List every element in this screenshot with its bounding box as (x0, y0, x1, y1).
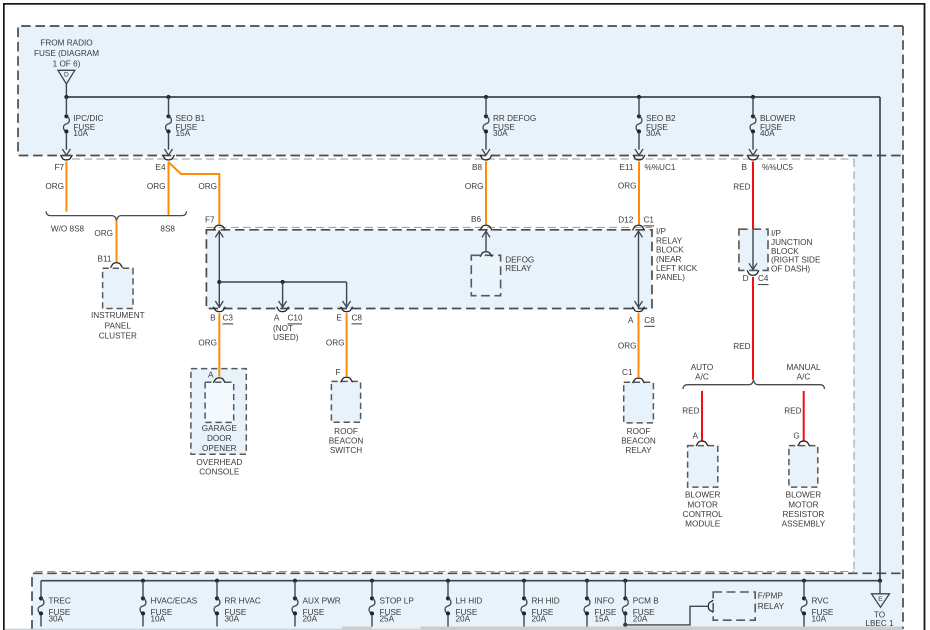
svg-text:BLOCK: BLOCK (656, 246, 684, 255)
svg-text:BLOWER: BLOWER (685, 491, 721, 500)
fuse RR HVAC 30A (214, 581, 261, 627)
svg-text:STOP LP: STOP LP (380, 597, 415, 606)
svg-text:OVERHEAD: OVERHEAD (196, 458, 242, 467)
connector label C10 (288, 314, 303, 324)
svg-text:MOTOR: MOTOR (688, 500, 718, 509)
roof beacon relay box (624, 382, 654, 423)
pin label E11 (620, 163, 634, 172)
svg-text:B11: B11 (98, 254, 112, 263)
node bus tap HVAC/ECAS (141, 579, 145, 583)
svg-text:SEO B1: SEO B1 (176, 114, 206, 123)
svg-text:USED): USED) (273, 333, 299, 342)
svg-text:PANEL): PANEL) (656, 273, 685, 282)
svg-text:SWITCH: SWITCH (330, 446, 362, 455)
node bus tap PCM B (623, 579, 627, 583)
fuse RR DEFOG 30A (482, 97, 536, 155)
svg-text:FROM RADIO: FROM RADIO (40, 39, 92, 48)
defog relay box (471, 255, 500, 295)
fuse RH HID 20A (521, 581, 560, 627)
svg-text:30A: 30A (225, 614, 240, 623)
off-page triangle D (58, 70, 75, 84)
pin label A (C10) (274, 314, 280, 323)
thin dashed line above relay block (206, 226, 652, 228)
wire label ORG (B8) (465, 182, 484, 191)
pin label E4 (155, 163, 165, 172)
instrument panel cluster box (103, 268, 133, 308)
scrollbar strip left (342, 627, 372, 630)
label FROM RADIO FUSE (DIAGRAM 1 OF 6) (34, 39, 99, 69)
svg-text:(NOT: (NOT (273, 324, 293, 333)
svg-text:ORG: ORG (618, 342, 637, 351)
svg-text:RED: RED (784, 406, 801, 415)
svg-text:ORG: ORG (618, 182, 637, 191)
svg-text:I/P: I/P (771, 229, 782, 238)
node bus tap IPC/DIC (64, 95, 68, 99)
svg-text:10A: 10A (812, 614, 827, 623)
svg-text:C10: C10 (288, 314, 303, 323)
svg-text:30A: 30A (49, 614, 64, 623)
svg-text:RESISTOR: RESISTOR (783, 510, 825, 519)
fuse HVAC/ECAS 10A (140, 581, 198, 627)
fuse SEO B2 30A (635, 97, 676, 155)
connector B11 cup (111, 263, 123, 268)
svg-text:CONTROL: CONTROL (683, 510, 723, 519)
svg-text:HVAC/ECAS: HVAC/ECAS (151, 597, 198, 606)
wire label RED (control module) (682, 406, 699, 415)
wire PCM B to F/PMP relay (625, 606, 707, 628)
node relay block junction 1 (217, 280, 221, 284)
connector label C8 (right) (644, 316, 655, 326)
connector D/C4 cup (747, 270, 759, 275)
svg-text:ROOF: ROOF (334, 427, 358, 436)
fuse BLOWER 40A (749, 97, 796, 155)
node bus tap STOP LP (370, 579, 374, 583)
scrollbar strip baseline (5, 629, 903, 630)
svg-text:MANUAL: MANUAL (786, 363, 821, 372)
svg-text:G: G (793, 432, 799, 441)
svg-text:C1: C1 (622, 368, 633, 377)
brace AUTO A/C / MANUAL A/C (683, 380, 825, 389)
wire ORG C3 to garage door opener (218, 313, 220, 377)
roof beacon switch box (331, 381, 360, 422)
svg-text:LBEC 1: LBEC 1 (865, 619, 894, 628)
connector cup F/PMP relay (708, 600, 713, 612)
label I/P RELAY BLOCK (NEAR LEFT KICK PANEL) (656, 227, 698, 282)
svg-text:LH HID: LH HID (456, 597, 483, 606)
svg-text:10A: 10A (73, 129, 88, 138)
svg-text:F7: F7 (54, 163, 64, 172)
inner boundary dashed line below top fuse block (72, 158, 854, 160)
scrollbar strip gap (372, 627, 421, 629)
blower motor resistor assembly box (789, 446, 818, 488)
fuse AUX PWR 20A (292, 581, 341, 627)
svg-text:SEO B2: SEO B2 (646, 114, 676, 123)
svg-text:CONSOLE: CONSOLE (199, 468, 240, 477)
connector B/C3 cup (213, 307, 225, 312)
svg-text:C3: C3 (223, 314, 234, 323)
wire ORG C8-A to roof beacon relay (638, 313, 640, 377)
pin label D (C4) (743, 274, 749, 283)
svg-text:A: A (628, 316, 634, 325)
svg-text:A: A (693, 432, 699, 441)
fuse TREC 30A (38, 581, 71, 627)
svg-text:TREC: TREC (49, 597, 71, 606)
svg-text:F: F (335, 368, 340, 377)
label ROOF BEACON SWITCH (329, 427, 364, 455)
fuse INFO 15A (584, 581, 617, 627)
svg-text:W/O 8S8: W/O 8S8 (51, 224, 85, 233)
wire ORG from F7 (65, 162, 67, 212)
svg-text:B: B (742, 163, 748, 172)
svg-text:30A: 30A (646, 129, 661, 138)
connector E/C8 cup (341, 307, 353, 312)
scrollbar strip right (421, 627, 902, 630)
svg-text:AUTO: AUTO (691, 363, 714, 372)
label I/P JUNCTION BLOCK (RIGHT SIDE OF DASH) (771, 229, 821, 274)
svg-text:8S8: 8S8 (160, 224, 175, 233)
connector cup garage door opener (213, 378, 225, 383)
svg-text:15A: 15A (595, 614, 610, 623)
pin label B6 (471, 215, 481, 224)
connector label C8 (352, 314, 363, 324)
net label %%UC1 (645, 163, 676, 172)
fuse SEO B1 15A (165, 97, 206, 155)
svg-text:CLUSTER: CLUSTER (99, 331, 137, 340)
node bus tap RVC (802, 579, 806, 583)
svg-text:RR DEFOG: RR DEFOG (493, 114, 536, 123)
wire bus to triangle E (879, 581, 881, 594)
blower motor control module box (688, 446, 718, 488)
svg-text:MOTOR: MOTOR (788, 500, 818, 509)
page border right (924, 3, 926, 630)
relay block internal drop C8-E (343, 282, 351, 308)
svg-text:20A: 20A (456, 614, 471, 623)
fuse LH HID 20A (445, 581, 482, 627)
svg-text:IPC/DIC: IPC/DIC (73, 114, 103, 123)
wire ORG brace to B11 (116, 221, 118, 263)
svg-text:(NEAR: (NEAR (656, 255, 682, 264)
wire label RED (B) (733, 183, 750, 192)
node bus tap LH HID (446, 579, 450, 583)
svg-text:OPENER: OPENER (202, 444, 237, 453)
label GARAGE DOOR OPENER (202, 424, 238, 453)
wire RED to blower motor resistor (803, 391, 805, 441)
wire label ORG (F7) (45, 182, 64, 191)
inner boundary dashed line right side (853, 159, 855, 572)
relay block internal line to defog relay (482, 230, 490, 251)
I/P relay block box (206, 230, 652, 309)
svg-text:D12: D12 (618, 216, 633, 225)
svg-text:30A: 30A (493, 129, 508, 138)
node bus tap AUX PWR (293, 579, 297, 583)
connector F7 cup (relay block) (213, 225, 225, 230)
connector cup roof beacon switch (341, 377, 353, 382)
svg-text:BLOCK: BLOCK (771, 247, 799, 256)
power bus right vertical (879, 97, 881, 581)
wire label ORG (E11) (618, 182, 637, 191)
wire RED from B (752, 162, 754, 230)
svg-text:ORG: ORG (45, 182, 64, 191)
svg-text:RED: RED (733, 342, 750, 351)
svg-text:D: D (743, 274, 749, 283)
pin label F7 (54, 163, 64, 172)
label TO LBEC 1 (865, 611, 894, 628)
node relay block junction 2 (281, 280, 285, 284)
pin label A (control module) (693, 432, 699, 441)
connector A/C10 cup (277, 307, 289, 312)
svg-text:BEACON: BEACON (621, 437, 656, 446)
svg-text:RH HID: RH HID (532, 597, 560, 606)
svg-text:BLOWER: BLOWER (786, 491, 822, 500)
svg-text:E: E (336, 314, 342, 323)
connector label C3 (223, 314, 234, 324)
svg-text:GARAGE: GARAGE (202, 424, 238, 433)
connector cup defog relay (480, 252, 492, 257)
pin label B8 (472, 163, 482, 172)
label (NOT USED) (273, 324, 299, 342)
connector B cup (747, 155, 759, 160)
svg-text:RELAY: RELAY (758, 602, 785, 611)
power bus horizontal (66, 96, 880, 98)
svg-text:INSTRUMENT: INSTRUMENT (91, 311, 145, 320)
wire label ORG (C3) (198, 339, 217, 348)
svg-text:PANEL: PANEL (105, 322, 132, 331)
bottom bus horizontal (41, 580, 880, 582)
node bus tap RR HVAC (215, 579, 219, 583)
svg-text:%%UC5: %%UC5 (762, 163, 793, 172)
pin label C1 (roof beacon relay) (622, 368, 633, 377)
svg-text:A/C: A/C (695, 373, 709, 382)
svg-text:RELAY: RELAY (625, 446, 652, 455)
pin label B (742, 163, 748, 172)
connector F7 cup (60, 155, 72, 160)
node bus tap RH HID (522, 579, 526, 583)
net label %%UC5 (762, 163, 793, 172)
pin label A (C8) (628, 316, 634, 325)
svg-text:1 OF 6): 1 OF 6) (53, 60, 81, 69)
fuse PCM B 20A (622, 581, 659, 624)
svg-text:OF DASH): OF DASH) (771, 265, 810, 274)
brace W/O 8S8 / 8S8 (46, 211, 187, 220)
svg-text:D: D (64, 72, 69, 79)
fuse block area fill (top) (18, 26, 903, 156)
svg-text:40A: 40A (760, 129, 775, 138)
bottom fuse block fill (32, 573, 903, 629)
svg-text:DOOR: DOOR (207, 434, 232, 443)
off-page triangle E (872, 594, 890, 607)
bottom fuse block dashed border (32, 573, 903, 629)
label DEFOG RELAY (505, 256, 534, 273)
pin label F (roof beacon switch) (335, 368, 340, 377)
relay block internal drop C10 (279, 282, 287, 308)
label BLOWER MOTOR CONTROL MODULE (683, 491, 723, 529)
connector label C4 (758, 274, 769, 284)
svg-text:B6: B6 (471, 215, 481, 224)
junction block internal line (749, 230, 757, 270)
connector cup blower motor resistor (798, 441, 810, 446)
svg-text:%%UC1: %%UC1 (645, 163, 676, 172)
svg-text:ORG: ORG (198, 182, 217, 191)
svg-text:AUX PWR: AUX PWR (303, 597, 341, 606)
overhead console box (191, 369, 246, 455)
svg-text:B8: B8 (472, 163, 482, 172)
option label W/O 8S8 (51, 224, 85, 233)
svg-text:20A: 20A (532, 614, 547, 623)
svg-text:A/C: A/C (797, 373, 811, 382)
pin label G (resistor) (793, 432, 799, 441)
connector B8 cup (480, 155, 492, 160)
wire label ORG (C8 A) (618, 342, 637, 351)
wire ORG from B8 to B6 (485, 162, 487, 225)
page border top (3, 3, 925, 5)
svg-text:A: A (274, 314, 280, 323)
pin label A (garage door opener) (208, 371, 214, 380)
label OVERHEAD CONSOLE (196, 458, 242, 476)
wire label ORG (E4) (147, 182, 166, 191)
svg-text:C4: C4 (758, 274, 769, 283)
relay block internal horizontal wire (219, 281, 346, 283)
svg-text:LEFT KICK: LEFT KICK (656, 264, 698, 273)
svg-text:RELAY: RELAY (505, 264, 532, 273)
svg-text:RED: RED (733, 183, 750, 192)
svg-text:BEACON: BEACON (329, 436, 364, 445)
option label MANUAL A/C (786, 363, 821, 382)
wire ORG from E11 to D12 (638, 162, 640, 225)
connector E4 cup (163, 155, 175, 160)
label INSTRUMENT PANEL CLUSTER (91, 311, 145, 340)
svg-text:15A: 15A (176, 129, 191, 138)
pin label D12 (618, 216, 633, 225)
label ROOF BEACON RELAY (621, 427, 656, 455)
node bus tap SEO B1 (166, 95, 170, 99)
svg-text:C8: C8 (352, 314, 363, 323)
svg-text:ORG: ORG (198, 339, 217, 348)
wire triangle D to bus (65, 84, 67, 97)
pin label B (C3) (210, 314, 216, 323)
svg-text:MODULE: MODULE (685, 520, 721, 529)
node bus tap SEO B2 (637, 95, 641, 99)
I/P junction block box (739, 229, 768, 270)
svg-text:ORG: ORG (94, 229, 113, 238)
connector B6 cup (relay block) (480, 225, 492, 230)
fuse RVC 10A (801, 581, 834, 627)
svg-text:10A: 10A (151, 614, 166, 623)
svg-text:BLOWER: BLOWER (760, 114, 796, 123)
option label AUTO A/C (691, 363, 714, 382)
svg-text:RVC: RVC (812, 597, 829, 606)
connector D12/C1 cup (relay block) (633, 225, 645, 230)
option label 8S8 (160, 224, 175, 233)
wire ORG branch E4 to relay block F7 (169, 163, 219, 225)
svg-text:I/P: I/P (656, 227, 667, 236)
node bus tap BLOWER (751, 95, 755, 99)
wire RED to blower motor control module (701, 391, 703, 441)
svg-text:F7: F7 (205, 215, 215, 224)
pin label E (C8) (336, 314, 342, 323)
connector cup blower motor control module (696, 441, 708, 446)
svg-text:E4: E4 (155, 163, 165, 172)
svg-text:20A: 20A (303, 614, 318, 623)
pin label B11 (98, 254, 112, 263)
wire label ORG (C8 E) (326, 339, 345, 348)
svg-text:ORG: ORG (326, 339, 345, 348)
svg-text:(RIGHT SIDE: (RIGHT SIDE (771, 256, 821, 265)
wire label RED (C4) (733, 342, 750, 351)
label F/PMP RELAY (758, 592, 785, 611)
svg-text:E: E (878, 596, 883, 603)
node bus tap INFO (585, 579, 589, 583)
wire ORG C8-E to roof beacon switch (346, 313, 348, 376)
svg-text:ASSEMBLY: ASSEMBLY (782, 520, 826, 529)
node PCM B wire junction (623, 623, 627, 627)
svg-text:PCM B: PCM B (633, 597, 659, 606)
svg-text:C1: C1 (644, 216, 655, 225)
right harness band fill (854, 156, 903, 574)
svg-text:INFO: INFO (595, 597, 615, 606)
right dashed border line (902, 26, 904, 629)
wire label RED (resistor) (784, 406, 801, 415)
top fuse block dashed border (18, 26, 903, 156)
relay block internal line F7-C3 (215, 230, 223, 308)
connector A/C8 cup (633, 307, 645, 312)
svg-text:RED: RED (682, 406, 699, 415)
wire label ORG (B11) (94, 229, 113, 238)
page border left (3, 3, 5, 630)
wire label ORG (branch) (198, 182, 217, 191)
svg-text:RELAY: RELAY (656, 236, 683, 245)
svg-text:20A: 20A (633, 614, 648, 623)
connector cup roof beacon relay (633, 378, 645, 383)
inner boundary dashed line above bottom fuse block (35, 571, 854, 573)
connector E11 cup (633, 155, 645, 160)
svg-text:ORG: ORG (465, 182, 484, 191)
garage door opener box (205, 382, 234, 422)
fuse STOP LP 25A (369, 581, 414, 627)
node bus junction right (878, 579, 882, 583)
connector label C1 (644, 216, 655, 226)
svg-text:A: A (208, 371, 214, 380)
svg-text:JUNCTION: JUNCTION (771, 238, 812, 247)
pin label F7 (relay block) (205, 215, 215, 224)
svg-text:ROOF: ROOF (627, 427, 651, 436)
relay block internal line D12-C8 (635, 230, 643, 308)
svg-text:F/PMP: F/PMP (758, 592, 784, 601)
svg-text:25A: 25A (380, 614, 395, 623)
label BLOWER MOTOR RESISTOR ASSEMBLY (782, 491, 826, 529)
wire RED C4 to brace (752, 277, 754, 380)
F/PMP relay box (713, 592, 755, 620)
svg-text:E11: E11 (620, 163, 634, 172)
wire ORG from E4 (168, 162, 170, 216)
svg-text:RR HVAC: RR HVAC (225, 597, 261, 606)
fuse IPC/DIC 10A (62, 97, 103, 155)
node bus tap RR DEFOG (484, 95, 488, 99)
svg-text:B: B (210, 314, 216, 323)
svg-text:ORG: ORG (147, 182, 166, 191)
svg-text:C8: C8 (644, 316, 655, 325)
svg-text:FUSE (DIAGRAM: FUSE (DIAGRAM (34, 49, 99, 58)
